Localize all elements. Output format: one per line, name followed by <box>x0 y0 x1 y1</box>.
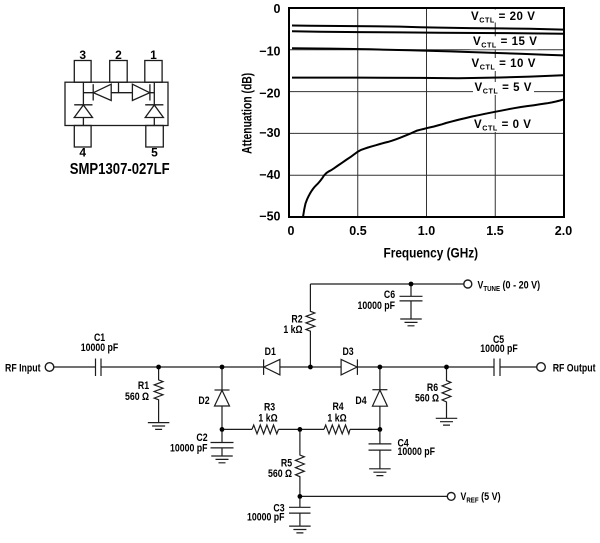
label R1 value <box>125 391 149 403</box>
chart gridline x=1.5GHz <box>494 8 496 217</box>
chart gridline y=-20dB <box>289 91 564 93</box>
svg-text:3: 3 <box>79 48 86 62</box>
y axis title Attenuation (dB) <box>239 73 255 154</box>
ground R1 <box>148 423 170 430</box>
svg-text:RF Input: RF Input <box>5 363 41 375</box>
label C1 <box>94 332 106 344</box>
svg-text:10000 pF: 10000 pF <box>170 443 208 455</box>
label C3 <box>273 503 285 515</box>
chart gridline x=1.0GHz <box>426 8 428 217</box>
svg-text:10000 pF: 10000 pF <box>81 342 119 354</box>
package pin 1 <box>145 61 162 83</box>
svg-text:10000 pF: 10000 pF <box>358 300 396 312</box>
svg-text:1: 1 <box>150 48 157 62</box>
svg-text:560 Ω: 560 Ω <box>268 468 292 480</box>
package pin 2 <box>110 61 128 83</box>
diode package left shunt <box>74 105 92 118</box>
svg-text:0: 0 <box>288 224 295 238</box>
terminal VREF <box>447 493 455 501</box>
wire C1 to D1 <box>101 366 264 368</box>
label VTUNE (0 - 20 V) <box>478 280 541 293</box>
svg-text:560 Ω: 560 Ω <box>125 391 149 403</box>
resistor R2 <box>306 284 315 367</box>
label RF Output <box>553 363 596 375</box>
svg-text:RF Output: RF Output <box>553 363 596 375</box>
label C5 value <box>480 343 518 355</box>
chart gridline y=-40dB <box>289 174 564 176</box>
svg-text:D2: D2 <box>198 395 210 407</box>
diode D3 <box>341 359 357 375</box>
label R1 <box>138 380 150 392</box>
x tick label 2.0 <box>555 224 572 238</box>
wire lower bias line <box>222 428 380 430</box>
label VCTL = 0 V <box>471 119 535 133</box>
svg-text:560 Ω: 560 Ω <box>415 393 439 405</box>
node main-R6 <box>444 365 449 370</box>
label R4 <box>332 401 344 413</box>
node VTUNE-C6 <box>409 282 414 287</box>
label RF Input <box>5 363 41 375</box>
resistor R4 <box>324 425 350 434</box>
capacitor C6 <box>400 284 423 319</box>
y tick label 0 <box>274 2 281 16</box>
svg-text:Frequency (GHz): Frequency (GHz) <box>383 245 478 261</box>
label D1 <box>265 346 277 358</box>
wire pin 2 stub <box>118 82 120 93</box>
label C3 value <box>247 512 285 524</box>
svg-text:−30: −30 <box>259 126 280 140</box>
resistor R1 <box>154 367 163 422</box>
label D2 <box>198 395 210 407</box>
ground C3 <box>289 526 311 533</box>
svg-text:−40: −40 <box>259 168 280 182</box>
label pin 5 <box>151 146 158 160</box>
label C2 <box>196 432 208 444</box>
svg-text:VTUNE (0 - 20 V): VTUNE (0 - 20 V) <box>478 280 541 293</box>
label R3 <box>264 402 276 414</box>
svg-text:0.5: 0.5 <box>349 224 366 238</box>
package pin 4 <box>74 126 91 148</box>
wire internal right vertical <box>153 82 155 125</box>
svg-text:10000 pF: 10000 pF <box>398 446 436 458</box>
svg-text:2: 2 <box>115 48 122 62</box>
label pin 2 <box>115 48 122 62</box>
svg-text:1.0: 1.0 <box>418 224 435 238</box>
label VCTL = 5 V <box>473 82 534 96</box>
node VREF-R5 <box>298 494 303 499</box>
package pin 5 <box>146 126 164 148</box>
node main-D4 <box>378 365 383 370</box>
node bias-R5 <box>298 427 303 432</box>
label C4 value <box>398 446 436 458</box>
ground R6 <box>436 418 458 425</box>
resistor R6 <box>442 367 451 418</box>
diode D1 <box>264 359 280 375</box>
curve VCTL=20V <box>292 26 563 30</box>
label R2 value <box>283 324 302 336</box>
ground C4 <box>369 469 391 476</box>
label pin 1 <box>150 48 157 62</box>
capacitor C5 <box>494 359 500 377</box>
x axis title Frequency (GHz) <box>383 245 478 261</box>
label VREF (5 V) <box>461 491 501 504</box>
svg-text:Attenuation (dB): Attenuation (dB) <box>239 73 255 154</box>
svg-text:2.0: 2.0 <box>555 224 572 238</box>
resistor R3 <box>252 425 279 434</box>
svg-text:−20: −20 <box>259 86 280 100</box>
y tick label -30 <box>259 126 280 140</box>
diode package right series <box>132 84 150 100</box>
label C5 <box>493 334 505 346</box>
label R5 value <box>268 468 292 480</box>
node main-D2 <box>220 365 225 370</box>
label R5 <box>281 458 293 470</box>
diode D2 <box>215 367 230 429</box>
chart plot border <box>289 8 564 217</box>
wire VREF line <box>300 495 447 497</box>
svg-text:5: 5 <box>151 146 158 160</box>
svg-text:1 kΩ: 1 kΩ <box>283 324 302 336</box>
diode D4 <box>372 367 387 429</box>
label D4 <box>355 395 367 407</box>
wire D1 to D3 <box>280 366 341 368</box>
ground C2 <box>211 456 233 463</box>
node main-R2 <box>308 365 313 370</box>
label VCTL = 20 V <box>468 10 538 25</box>
svg-text:−50: −50 <box>259 210 280 224</box>
terminal RF Input <box>45 363 54 372</box>
capacitor C1 <box>96 359 102 377</box>
x tick label 1.0 <box>418 224 435 238</box>
wire RF input to C1 <box>54 366 95 368</box>
label R2 <box>291 314 303 326</box>
label SMP1307-027LF <box>70 161 170 178</box>
label VCTL = 15 V <box>470 36 538 50</box>
label R6 value <box>415 393 439 405</box>
terminal VTUNE <box>464 280 472 288</box>
label C6 value <box>358 300 396 312</box>
y tick label -50 <box>259 210 280 224</box>
svg-text:SMP1307-027LF: SMP1307-027LF <box>70 161 170 178</box>
wire D3 to C5 <box>357 366 494 368</box>
label pin 3 <box>79 48 86 62</box>
node bias-D4 <box>378 427 383 432</box>
capacitor C3 <box>289 496 311 526</box>
resistor R5 <box>296 429 305 496</box>
curve VCTL=15V <box>292 31 563 33</box>
diode package left series <box>93 84 111 100</box>
y tick label -10 <box>259 44 280 58</box>
label pin 4 <box>79 146 86 160</box>
chart gridline x=0.5GHz <box>357 8 359 217</box>
svg-text:D3: D3 <box>342 346 354 358</box>
svg-text:10000 pF: 10000 pF <box>247 512 285 524</box>
node bias-D2 <box>220 427 225 432</box>
svg-text:−10: −10 <box>259 44 280 58</box>
svg-text:1 kΩ: 1 kΩ <box>258 413 277 425</box>
y tick label -40 <box>259 168 280 182</box>
chart gridline y=-30dB <box>289 132 564 134</box>
diode package right shunt <box>145 105 163 118</box>
label R6 <box>427 382 439 394</box>
ground C6 <box>400 319 422 326</box>
x tick label 0 <box>288 224 295 238</box>
curve VCTL=10V <box>292 48 563 55</box>
label C6 <box>384 289 396 301</box>
curve VCTL=0V <box>303 99 564 217</box>
label R4 value <box>327 413 346 425</box>
label C1 value <box>81 342 119 354</box>
terminal RF Output <box>537 363 546 372</box>
svg-text:1.5: 1.5 <box>486 224 503 238</box>
curve VCTL=5V <box>292 75 563 78</box>
svg-text:4: 4 <box>79 146 86 160</box>
svg-text:0: 0 <box>274 2 281 16</box>
wire internal horizontal <box>83 92 154 94</box>
wire internal left vertical <box>82 82 84 125</box>
chart gridline y=-10dB <box>289 49 564 51</box>
node main-R1 <box>156 365 161 370</box>
package body <box>65 82 168 125</box>
y tick label -20 <box>259 86 280 100</box>
label C2 value <box>170 443 208 455</box>
wire C5 to RF output <box>500 366 537 368</box>
wire VTUNE line <box>310 283 463 285</box>
label R3 value <box>258 413 277 425</box>
capacitor C4 <box>369 429 392 468</box>
svg-text:D1: D1 <box>265 346 277 358</box>
svg-text:VREF (5 V): VREF (5 V) <box>461 491 501 504</box>
label C4 <box>398 438 410 450</box>
svg-text:D4: D4 <box>355 395 367 407</box>
x tick label 0.5 <box>349 224 366 238</box>
capacitor C2 <box>211 429 234 455</box>
svg-text:R4: R4 <box>332 401 344 413</box>
package pin 3 <box>74 61 91 83</box>
label D3 <box>342 346 354 358</box>
svg-text:10000 pF: 10000 pF <box>480 343 518 355</box>
label VCTL = 10 V <box>469 58 538 72</box>
svg-text:1 kΩ: 1 kΩ <box>327 413 346 425</box>
x tick label 1.5 <box>486 224 503 238</box>
